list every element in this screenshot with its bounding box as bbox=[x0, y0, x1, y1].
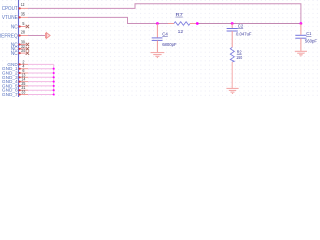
junction C2 node bbox=[231, 22, 234, 25]
svg-text:R2: R2 bbox=[237, 49, 242, 54]
capacitor C2 bbox=[231, 24, 233, 29]
svg-text:6800pF: 6800pF bbox=[162, 42, 177, 47]
pin NC 30 stub bbox=[19, 44, 26, 46]
resistor R2 bbox=[230, 47, 234, 62]
svg-text:560pF: 560pF bbox=[305, 39, 317, 44]
pin GND_7 stub bbox=[19, 94, 28, 96]
pin CPOUT stub bbox=[19, 7, 28, 9]
svg-text:0.047uF: 0.047uF bbox=[236, 32, 252, 37]
svg-text:12: 12 bbox=[178, 29, 184, 34]
junction GND bus dots bbox=[53, 68, 55, 96]
svg-text:CPOUT: CPOUT bbox=[2, 6, 19, 12]
wire GND row 4 bbox=[28, 76, 54, 78]
junction at R7 right bbox=[196, 22, 199, 25]
off-page port arrow REFFREQ bbox=[45, 32, 50, 39]
wire GND row 6 bbox=[28, 85, 54, 87]
pin GND_5 stub bbox=[19, 85, 28, 87]
wire REFFREQ to port bbox=[28, 35, 45, 37]
svg-text:C1: C1 bbox=[306, 31, 312, 36]
pin GND_6 stub bbox=[19, 89, 28, 91]
svg-text:12: 12 bbox=[21, 2, 25, 7]
pin GND_1 stub bbox=[19, 68, 28, 70]
wire GND row 7 bbox=[28, 89, 54, 91]
ground under C4 bbox=[151, 53, 165, 58]
pin NC 34 stub bbox=[19, 52, 26, 54]
svg-text:28: 28 bbox=[21, 30, 25, 35]
pin GND_3 stub bbox=[19, 76, 28, 78]
wire GND row 3 bbox=[28, 72, 54, 74]
wire GND row 2 bbox=[28, 68, 54, 70]
svg-text:33: 33 bbox=[21, 90, 25, 95]
pin NC 32 stub bbox=[19, 48, 26, 50]
svg-text:150: 150 bbox=[236, 55, 242, 60]
no-connect x on pin 30 bbox=[26, 43, 29, 46]
svg-text:R7: R7 bbox=[176, 12, 184, 17]
pin GND stub bbox=[19, 63, 28, 65]
capacitor C4 bbox=[156, 24, 158, 38]
junction C1 node bbox=[300, 22, 303, 25]
wire CPOUT net top bbox=[28, 4, 301, 24]
svg-text:C4: C4 bbox=[162, 31, 168, 36]
svg-text:35: 35 bbox=[21, 11, 25, 16]
wire GND row 5 bbox=[28, 81, 54, 83]
capacitor C1 bbox=[300, 24, 302, 35]
wire GND bus vertical bbox=[53, 64, 55, 94]
svg-text:REFREQ: REFREQ bbox=[0, 33, 18, 39]
resistor R7 bbox=[168, 23, 174, 25]
no-connect x on pin 5 bbox=[26, 25, 29, 28]
svg-text:34: 34 bbox=[21, 48, 25, 53]
pin VTUNE stub bbox=[19, 16, 28, 18]
svg-text:VTUNE: VTUNE bbox=[2, 15, 18, 21]
pin GND_2 stub bbox=[19, 72, 28, 74]
pin NC 5 stub bbox=[19, 26, 26, 28]
no-connect x on pin 34 bbox=[26, 51, 29, 54]
pin REFFREQ stub bbox=[19, 35, 28, 37]
wire R2 to ground bbox=[231, 62, 233, 88]
junction C4 node bbox=[156, 22, 159, 25]
svg-text:NC: NC bbox=[11, 24, 18, 30]
ground under R2 bbox=[226, 88, 238, 93]
ground under C1 bbox=[295, 51, 307, 56]
wire GND row 1 bbox=[28, 63, 54, 65]
svg-text:NC: NC bbox=[11, 51, 18, 57]
IC body right edge bbox=[18, 0, 20, 97]
no-connect x on pin 32 bbox=[26, 47, 29, 50]
wire GND row 8 bbox=[28, 94, 54, 96]
wire R7 right to C1 node bbox=[197, 23, 301, 25]
svg-text:C2: C2 bbox=[238, 23, 244, 28]
svg-text:GND_7: GND_7 bbox=[2, 92, 18, 97]
wire VTUNE net bbox=[28, 17, 168, 23]
pin GND_4 stub bbox=[19, 81, 28, 83]
